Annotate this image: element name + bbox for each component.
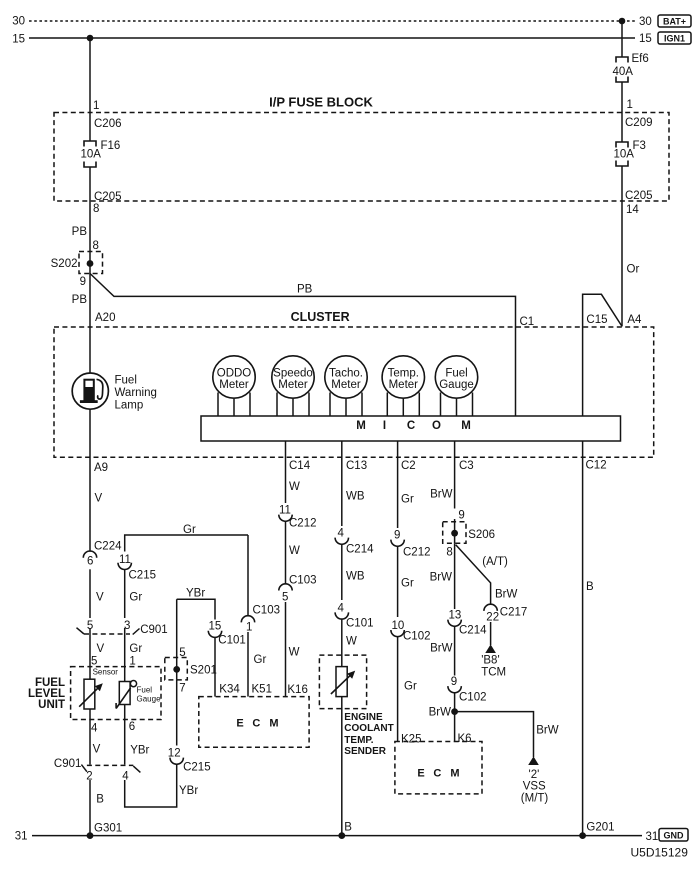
- svg-text:C14: C14: [289, 460, 311, 472]
- svg-text:C102: C102: [403, 631, 431, 643]
- svg-text:C: C: [433, 768, 441, 780]
- svg-text:C901: C901: [54, 758, 82, 770]
- label Fuel Gauge: [137, 686, 162, 704]
- wire B from cluster C12 to G201: [582, 441, 584, 836]
- wire Gr middle: [397, 546, 399, 617]
- svg-text:C101: C101: [346, 618, 374, 630]
- svg-text:BrW: BrW: [430, 572, 453, 584]
- wire to TCM arrow: [490, 622, 492, 645]
- svg-text:C102: C102: [459, 692, 487, 704]
- svg-text:IGN1: IGN1: [664, 33, 685, 43]
- meter Fuel Gauge: [435, 356, 477, 416]
- svg-text:9: 9: [394, 530, 400, 542]
- svg-text:7: 7: [179, 683, 185, 695]
- svg-text:1: 1: [627, 99, 633, 111]
- svg-text:C212: C212: [403, 547, 431, 559]
- svg-text:Tacho.: Tacho.: [329, 368, 363, 380]
- svg-text:PB: PB: [72, 226, 88, 238]
- svg-text:(A/T): (A/T): [482, 556, 508, 568]
- connector C214 pin 4 on WB wire: [335, 528, 374, 556]
- svg-text:14: 14: [626, 204, 639, 216]
- svg-text:M: M: [269, 718, 278, 730]
- svg-text:4: 4: [338, 603, 345, 615]
- svg-text:31: 31: [646, 831, 659, 843]
- wire BrW to K6: [454, 693, 456, 742]
- svg-text:S201: S201: [190, 665, 217, 677]
- svg-text:Lamp: Lamp: [115, 400, 144, 412]
- wire B from sender to ground line: [341, 697, 343, 836]
- fuse F16: [81, 140, 121, 167]
- svg-text:Meter: Meter: [389, 379, 419, 391]
- svg-text:8: 8: [93, 240, 99, 252]
- svg-text:E: E: [417, 768, 424, 780]
- fuel gauge symbol: [116, 681, 136, 709]
- svg-text:C214: C214: [346, 544, 374, 556]
- svg-text:C12: C12: [586, 460, 607, 472]
- svg-text:30: 30: [639, 16, 652, 28]
- connector C901 upper: [77, 620, 168, 636]
- svg-text:10A: 10A: [81, 149, 102, 161]
- svg-text:4: 4: [338, 528, 345, 540]
- svg-text:Fuel: Fuel: [137, 686, 153, 695]
- wire right feed from line 30 down through fuses to A4: [621, 21, 623, 326]
- svg-text:15: 15: [639, 33, 652, 45]
- svg-text:9: 9: [458, 509, 464, 521]
- svg-text:BAT+: BAT+: [663, 16, 686, 26]
- wire Gr from cluster C2: [397, 441, 399, 528]
- connector C103 pin 5 on W wire: [279, 575, 317, 604]
- svg-text:V: V: [95, 493, 103, 505]
- svg-text:A4: A4: [627, 314, 642, 326]
- svg-text:Meter: Meter: [219, 379, 249, 391]
- svg-text:9: 9: [451, 676, 457, 688]
- wire sensor down to C901 pin 2: [89, 709, 91, 765]
- wire YBr bracket run: [177, 599, 215, 745]
- svg-text:4: 4: [122, 771, 129, 783]
- svg-text:C103: C103: [253, 605, 281, 617]
- svg-text:COOLANT: COOLANT: [344, 723, 393, 734]
- svg-text:W: W: [289, 545, 300, 557]
- svg-text:BrW: BrW: [536, 725, 559, 737]
- sensor variable resistor: [79, 667, 103, 709]
- svg-text:Gr: Gr: [183, 524, 196, 536]
- svg-text:C217: C217: [500, 607, 528, 619]
- meter Temp: [382, 356, 424, 416]
- wire Gr to gauge: [124, 634, 126, 682]
- svg-text:9: 9: [80, 276, 86, 288]
- svg-text:1: 1: [93, 100, 99, 112]
- fuse F3 10A: [614, 140, 646, 166]
- wire W to ECT sender: [341, 619, 343, 667]
- svg-text:YBr: YBr: [179, 785, 198, 797]
- ECM dashed box left: [199, 697, 309, 748]
- connector C102 pin 10 on Gr wire: [391, 620, 431, 643]
- svg-text:6: 6: [87, 556, 93, 568]
- svg-text:G301: G301: [94, 823, 122, 835]
- svg-text:W: W: [346, 636, 357, 648]
- wire W to K16: [285, 602, 287, 697]
- svg-text:C: C: [407, 420, 415, 432]
- svg-text:C212: C212: [289, 518, 317, 530]
- wire diagonal S206 to C217 branch (A/T): [456, 545, 491, 605]
- svg-text:Gr: Gr: [401, 494, 414, 506]
- svg-text:Gr: Gr: [129, 643, 142, 655]
- svg-text:Fuel: Fuel: [445, 368, 467, 380]
- wire B to G301: [89, 780, 91, 836]
- wire Gr to K51: [247, 632, 249, 697]
- wire W middle: [285, 521, 287, 584]
- svg-text:10A: 10A: [614, 149, 635, 161]
- svg-text:5: 5: [87, 620, 93, 632]
- svg-text:1: 1: [129, 656, 135, 668]
- connector C101 pin 4 on WB wire: [335, 603, 373, 630]
- connector C215 pin 11 on gauge wire: [118, 554, 156, 582]
- svg-text:Gauge: Gauge: [439, 379, 474, 391]
- wire diagonal from S202 to PB horizontal run: [90, 274, 516, 417]
- svg-text:Gr: Gr: [129, 592, 142, 604]
- svg-text:Temp.: Temp.: [388, 368, 419, 380]
- svg-text:SENDER: SENDER: [344, 746, 386, 757]
- svg-text:F3: F3: [633, 140, 646, 152]
- wire left feed from line 15 down to S202: [89, 38, 91, 274]
- connector C101 pin 15 on K34 wire: [208, 621, 246, 647]
- wire BrW S206 to C214: [454, 543, 456, 609]
- fuse Ef6 40A: [613, 53, 649, 82]
- svg-text:6: 6: [129, 721, 135, 733]
- svg-text:Gr: Gr: [401, 578, 414, 590]
- svg-text:11: 11: [119, 554, 131, 566]
- svg-text:W: W: [289, 481, 300, 493]
- svg-text:13: 13: [449, 610, 462, 622]
- svg-text:'B8': 'B8': [481, 655, 499, 667]
- svg-text:I: I: [383, 420, 386, 432]
- svg-text:BrW: BrW: [430, 643, 453, 655]
- svg-text:Ef6: Ef6: [632, 53, 649, 65]
- ground bus line 31: [32, 835, 642, 837]
- wire WB middle: [341, 544, 343, 600]
- svg-text:M: M: [450, 768, 459, 780]
- wire K34 down to ECM: [214, 637, 216, 696]
- svg-text:GND: GND: [664, 830, 685, 840]
- wire lamp to A9: [89, 409, 91, 552]
- svg-text:Sensor: Sensor: [93, 668, 119, 677]
- svg-text:Gauge: Gauge: [137, 695, 162, 704]
- svg-text:Meter: Meter: [278, 379, 308, 391]
- svg-text:O: O: [432, 420, 441, 432]
- svg-text:V: V: [96, 592, 104, 604]
- svg-text:B: B: [586, 581, 594, 593]
- off-page arrow '2' VSS (M/T): [521, 756, 549, 804]
- wire gauge down to C901 pin 4: [124, 705, 126, 765]
- meter ODDO: [213, 356, 255, 416]
- svg-text:M: M: [461, 420, 471, 432]
- svg-text:FUEL: FUEL: [35, 677, 65, 689]
- svg-text:C1: C1: [520, 316, 535, 328]
- connector C212 pin 11 on W wire: [279, 505, 317, 530]
- connector C214 pin 13 on BrW wire: [448, 610, 487, 637]
- svg-text:'2': '2': [529, 769, 540, 781]
- wire BrW middle: [454, 626, 456, 675]
- svg-text:UNIT: UNIT: [38, 699, 65, 711]
- wire Gr2 from horizontal run to C103: [247, 535, 249, 616]
- svg-text:Gr: Gr: [254, 654, 267, 666]
- svg-text:C214: C214: [459, 625, 487, 637]
- off-page arrow 'B8' TCM: [481, 644, 506, 678]
- svg-text:22: 22: [486, 612, 499, 624]
- svg-text:B: B: [96, 794, 104, 806]
- svg-text:K6: K6: [458, 733, 472, 745]
- svg-text:11: 11: [279, 505, 291, 517]
- svg-text:40A: 40A: [613, 66, 634, 78]
- meter Tacho: [325, 356, 367, 416]
- svg-text:3: 3: [124, 620, 130, 632]
- splice S201: [165, 658, 217, 680]
- title ECM right: [417, 768, 459, 780]
- svg-text:E: E: [236, 718, 243, 730]
- svg-text:F16: F16: [101, 140, 121, 152]
- svg-text:15: 15: [209, 621, 222, 633]
- junction dot B wire on line 31: [338, 832, 345, 839]
- wire BrW branch to VSS: [455, 712, 534, 757]
- svg-text:C215: C215: [129, 570, 157, 582]
- fuel warning lamp U1: [72, 373, 108, 409]
- svg-text:15: 15: [12, 34, 25, 46]
- svg-text:C901: C901: [140, 624, 168, 636]
- svg-text:BrW: BrW: [429, 707, 452, 719]
- svg-text:K25: K25: [401, 734, 421, 746]
- svg-text:C101: C101: [218, 635, 246, 647]
- svg-text:WB: WB: [346, 571, 365, 583]
- svg-text:W: W: [289, 647, 300, 659]
- svg-text:A9: A9: [94, 462, 108, 474]
- svg-text:C2: C2: [401, 460, 416, 472]
- meter Speedo: [272, 356, 314, 416]
- svg-text:C206: C206: [94, 118, 122, 130]
- wire Gr to K25: [397, 637, 399, 742]
- svg-text:Speedo: Speedo: [273, 368, 313, 380]
- svg-text:YBr: YBr: [186, 588, 205, 600]
- ENGINE COOLANT TEMP SENDER dashed box: [319, 655, 366, 709]
- wire C15 jumper to A4: [583, 294, 622, 416]
- svg-text:BrW: BrW: [430, 489, 453, 501]
- svg-text:TEMP.: TEMP.: [344, 735, 373, 746]
- svg-text:C205: C205: [625, 190, 653, 202]
- svg-text:CLUSTER: CLUSTER: [291, 310, 350, 324]
- I/P FUSE BLOCK dashed box: [54, 113, 669, 202]
- svg-text:V: V: [97, 643, 105, 655]
- svg-text:Or: Or: [627, 264, 640, 276]
- svg-text:WB: WB: [346, 491, 365, 503]
- connector C217 pin 22: [484, 604, 527, 623]
- connector C901 lower: [54, 758, 140, 783]
- title ECM left: [236, 718, 278, 730]
- svg-text:Meter: Meter: [331, 379, 361, 391]
- CLUSTER dashed box: [54, 327, 654, 457]
- svg-text:U5D15129: U5D15129: [631, 846, 689, 860]
- svg-text:5: 5: [91, 656, 97, 668]
- title ENGINE COOLANT TEMP. SENDER: [344, 712, 393, 757]
- connector C215 pin 12 on YBr wire: [168, 748, 211, 774]
- svg-text:C13: C13: [346, 460, 367, 472]
- wire Gr horizontal run to gauge: [125, 535, 248, 552]
- connector C224 pin 6 on V wire: [83, 541, 122, 568]
- svg-text:YBr: YBr: [130, 745, 149, 757]
- svg-text:K34: K34: [219, 684, 240, 696]
- svg-text:V: V: [93, 744, 101, 756]
- junction dot on line 15: [87, 35, 94, 42]
- title FUEL LEVEL UNIT: [28, 677, 65, 711]
- wire W from cluster C14: [285, 441, 287, 503]
- svg-text:1: 1: [246, 622, 252, 634]
- svg-text:C215: C215: [183, 762, 211, 774]
- svg-text:K51: K51: [252, 684, 272, 696]
- svg-text:30: 30: [12, 16, 25, 28]
- svg-text:ODDO: ODDO: [217, 368, 252, 380]
- svg-text:S202: S202: [51, 258, 78, 270]
- svg-text:PB: PB: [72, 294, 88, 306]
- junction dot BrW branch: [451, 708, 458, 715]
- net tag IGN1: [658, 32, 691, 44]
- svg-text:Fuel: Fuel: [115, 375, 137, 387]
- svg-text:C3: C3: [459, 460, 474, 472]
- wire BrW from cluster C3: [454, 441, 456, 509]
- svg-text:K16: K16: [287, 684, 307, 696]
- wire V from C224 to C901: [89, 569, 91, 666]
- wire bus line 15: [29, 37, 635, 39]
- svg-text:C224: C224: [94, 541, 122, 553]
- junction dot on line 30: [619, 18, 626, 25]
- svg-text:I/P FUSE BLOCK: I/P FUSE BLOCK: [269, 95, 373, 110]
- svg-text:C15: C15: [586, 314, 607, 326]
- svg-text:G201: G201: [586, 822, 614, 834]
- svg-text:4: 4: [91, 723, 98, 735]
- svg-text:Gr: Gr: [404, 681, 417, 693]
- svg-text:BrW: BrW: [495, 589, 518, 601]
- svg-text:VSS: VSS: [523, 780, 546, 792]
- connector C212 pin 9 on Gr wire: [391, 530, 431, 559]
- FUEL LEVEL UNIT dashed box: [71, 667, 161, 720]
- svg-text:8: 8: [93, 203, 99, 215]
- net tag BAT+: [658, 15, 691, 27]
- ground G201: [579, 822, 614, 839]
- wire Gr from C215 to C901: [124, 570, 126, 635]
- label Fuel Warning Lamp: [115, 375, 157, 412]
- svg-text:C: C: [252, 718, 260, 730]
- svg-text:A20: A20: [95, 312, 115, 324]
- svg-text:S206: S206: [468, 529, 495, 541]
- wire WB from cluster C13: [341, 441, 343, 526]
- ECT sender variable resistor: [331, 667, 355, 697]
- svg-text:(M/T): (M/T): [521, 793, 549, 805]
- svg-text:B: B: [344, 822, 352, 834]
- svg-text:5: 5: [282, 592, 288, 604]
- wire bus line 30: [29, 20, 635, 22]
- svg-text:31: 31: [15, 831, 28, 843]
- splice S202: [51, 252, 103, 274]
- connector C102 pin 9 on BrW wire: [448, 676, 487, 704]
- splice S206: [443, 519, 495, 543]
- svg-text:C103: C103: [289, 575, 317, 587]
- net tag GND: [659, 829, 688, 842]
- ground G301: [87, 823, 123, 839]
- svg-text:PB: PB: [297, 284, 313, 296]
- wire YBr elbow to C215: [125, 764, 177, 807]
- svg-text:C209: C209: [625, 117, 653, 129]
- MICOM block U2: [201, 416, 621, 441]
- connector C103 pin 1 on Gr wire: [241, 605, 280, 634]
- ECM dashed box right: [395, 742, 482, 794]
- svg-text:M: M: [356, 420, 366, 432]
- svg-text:8: 8: [446, 547, 452, 559]
- wire S202 down to A20 and lamp: [89, 274, 91, 374]
- svg-text:TCM: TCM: [481, 667, 506, 679]
- svg-text:Warning: Warning: [115, 387, 157, 399]
- svg-text:ENGINE: ENGINE: [344, 712, 383, 723]
